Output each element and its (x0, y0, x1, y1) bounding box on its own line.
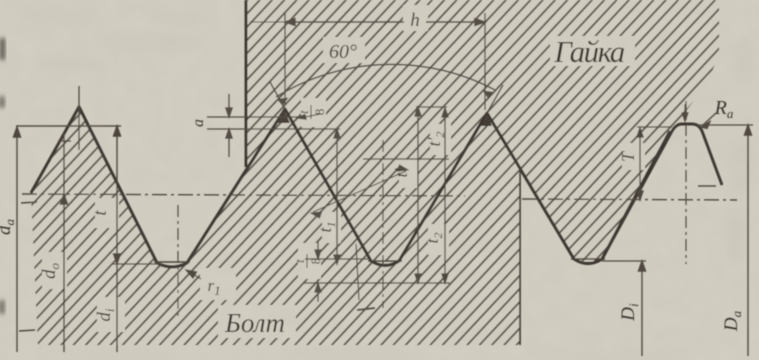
upper t/8 arrows at P2 (297, 114, 320, 119)
paper gap for label t'2 (430, 124, 451, 155)
nut root level line at P2 (207, 116, 298, 118)
V3 bottom extension to D_i (602, 260, 646, 262)
oblique arrow pair near pitch line (311, 165, 408, 218)
t1 dimension line (334, 129, 340, 264)
nut hatched region (Гайка body) (245, 0, 719, 261)
thread profile bold line (31, 107, 670, 267)
nut left edge (245, 0, 248, 167)
t'2 / t2 dimension line (442, 108, 448, 283)
P2 apex ink blob (278, 110, 290, 123)
V2 leader line down to small mark (356, 244, 359, 300)
label t/8 upper (rotated fraction) (296, 105, 327, 119)
break dashes next to d_a line (21, 202, 37, 203)
dimension d_o (58, 133, 71, 352)
V1 centerline (177, 205, 179, 320)
paper gap for label Гайка (550, 36, 635, 66)
nut thread outline at right (groove with flat crest, Ra rounding) (602, 124, 722, 259)
paper gap for label Болт (218, 305, 296, 338)
lower t/8 dimension near V2 (303, 240, 450, 302)
valley chord V3 (571, 258, 605, 260)
t-cluster top line (416, 106, 447, 108)
dimension T (637, 127, 672, 200)
dimension D_i (639, 261, 646, 356)
paper gap for label h (403, 5, 428, 31)
paper gap for label t1 (322, 212, 341, 243)
crest line at P1 (d_a level) (16, 125, 121, 127)
h extension verticals (284, 13, 286, 105)
60 degree arc with arrows (276, 64, 495, 97)
label t/8 lower (rotated fraction) (292, 254, 323, 268)
P4 centerline (685, 101, 687, 264)
paper gap for label t2 (428, 224, 449, 255)
paper gap for label t' (399, 159, 418, 188)
bolt right cut edge (519, 168, 521, 345)
faint show-through smudges right margin (684, 20, 756, 263)
faint show-through smudges top-left (20, 9, 210, 71)
paper gap for label t (95, 198, 119, 228)
paper gap for lower t/8 (298, 243, 321, 279)
dimension t / d_i shared line (114, 126, 121, 352)
short dash below P4 right flank (698, 185, 716, 187)
t' dimension line (415, 107, 421, 283)
dark scanner specks on left edge (0, 38, 5, 314)
valley chord V1 (154, 261, 190, 263)
mid extension line y=159 (363, 158, 449, 160)
flank extension through arc right (487, 85, 503, 113)
pitch dash-dot line left (22, 194, 465, 196)
r1 leader (186, 270, 201, 279)
valley chord V2 (368, 260, 402, 262)
paper gap for label T (622, 143, 645, 170)
crest extension to D_a (697, 124, 753, 126)
paper gap for label d_i (97, 297, 125, 332)
R_a leader (701, 113, 716, 129)
P1 apex centerline (78, 86, 80, 150)
V1 bottom extension line (113, 263, 162, 265)
paper gap for label 60° (323, 37, 365, 63)
P3 apex ink blob (481, 114, 492, 126)
bolt crest level line at P2 (207, 128, 340, 130)
small arrow onto nut crest flat (682, 104, 688, 121)
paper gap for label r1 (200, 268, 236, 300)
paper gap for upper t/8 (301, 98, 326, 127)
dimension d_a (14, 127, 21, 352)
faint show-through bottom strip (60, 349, 680, 360)
bolt hatched region (Болт body) (31, 107, 520, 345)
dimension D_a (745, 125, 752, 356)
paper gap for label d_o (42, 252, 67, 289)
flank extension through arc left (270, 82, 285, 109)
pitch dash-dot line right (522, 199, 737, 200)
dimension h line with arrows (250, 19, 485, 26)
dimension a: vertical with arrows (226, 94, 232, 157)
V2 centerline (382, 140, 384, 308)
